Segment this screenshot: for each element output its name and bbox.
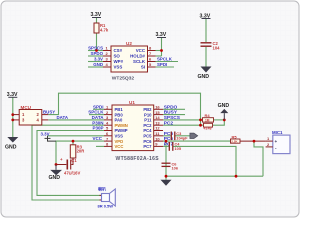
svg-text:喇叭: 喇叭	[98, 186, 106, 192]
svg-text:VCC: VCC	[93, 136, 103, 141]
svg-text:VPD: VPD	[115, 139, 124, 144]
svg-text:U1: U1	[129, 100, 135, 105]
svg-text:SCLK: SCLK	[133, 59, 146, 64]
svg-text:P30P: P30P	[92, 126, 103, 131]
svg-text:SPDO: SPDO	[91, 51, 104, 56]
svg-text:SI: SI	[141, 65, 145, 70]
svg-text:15: 15	[155, 110, 160, 115]
svg-text:GND: GND	[198, 74, 210, 80]
svg-text:PB2: PB2	[143, 107, 152, 112]
svg-text:DATA: DATA	[92, 115, 105, 120]
svg-text:3.3V: 3.3V	[156, 32, 167, 38]
svg-text:2.2K: 2.2K	[231, 140, 238, 144]
svg-text:3.3V: 3.3V	[200, 14, 211, 20]
svg-text:3.3V: 3.3V	[7, 92, 18, 98]
svg-text:BUSY: BUSY	[164, 110, 178, 116]
svg-text:VCC: VCC	[136, 48, 146, 53]
svg-text:P30N: P30N	[92, 120, 103, 125]
svg-text:SPDI: SPDI	[93, 104, 104, 109]
svg-text:MIC1: MIC1	[272, 130, 283, 135]
svg-text:P10: P10	[144, 112, 152, 117]
svg-text:PC2: PC2	[164, 120, 174, 126]
svg-text:PWMN: PWMN	[115, 123, 128, 128]
svg-text:P11: P11	[144, 118, 152, 123]
svg-text:WT588F02A-16S: WT588F02A-16S	[116, 156, 160, 162]
svg-text:SPDI: SPDI	[157, 62, 167, 67]
svg-text:16: 16	[155, 105, 160, 110]
svg-text:R5: R5	[232, 134, 238, 139]
svg-text:DATA: DATA	[57, 115, 69, 120]
svg-text:13: 13	[155, 120, 160, 125]
svg-text:3.3V: 3.3V	[94, 57, 103, 62]
svg-text:WT25Q32: WT25Q32	[112, 75, 135, 81]
svg-text:R4: R4	[205, 113, 211, 118]
svg-text:U2: U2	[126, 41, 132, 46]
svg-text:PC7: PC7	[164, 142, 174, 148]
svg-text:4.7k: 4.7k	[100, 27, 109, 32]
svg-text:4148: 4148	[204, 127, 212, 131]
svg-text:PC4: PC4	[143, 128, 152, 133]
svg-text:+: +	[275, 139, 278, 144]
svg-text:12: 12	[155, 126, 160, 131]
svg-text:PC5: PC5	[143, 134, 152, 139]
svg-text:PB0: PB0	[115, 112, 124, 117]
svg-text:GND: GND	[5, 144, 17, 150]
svg-text:8R 0.5W: 8R 0.5W	[98, 204, 114, 209]
svg-text:14: 14	[155, 115, 160, 120]
svg-text:SO: SO	[114, 54, 121, 59]
svg-text:BUSY: BUSY	[43, 110, 55, 115]
svg-text:HOLD#: HOLD#	[130, 54, 145, 59]
svg-text:VSS: VSS	[114, 65, 123, 70]
svg-text:VCC: VCC	[115, 144, 124, 149]
svg-text:47U/16V: 47U/16V	[64, 170, 81, 175]
svg-text:SPCLK: SPCLK	[157, 57, 173, 62]
svg-text:MCU: MCU	[21, 105, 32, 110]
svg-text:C1: C1	[71, 158, 77, 163]
svg-text:10: 10	[155, 136, 160, 141]
svg-text:GND: GND	[218, 103, 230, 109]
svg-text:SPDO: SPDO	[164, 104, 178, 110]
svg-text:1M: 1M	[205, 119, 210, 123]
svg-text:106: 106	[172, 166, 179, 171]
svg-text:SPSCS: SPSCS	[88, 46, 103, 51]
svg-text:PWMP: PWMP	[115, 128, 128, 133]
svg-text:PC6: PC6	[143, 139, 152, 144]
svg-text:GND: GND	[93, 62, 103, 67]
svg-text:PA0: PA0	[115, 118, 124, 123]
svg-text:104pF: 104pF	[176, 135, 188, 140]
svg-text:SPSCS: SPSCS	[164, 115, 181, 121]
svg-text:CS#: CS#	[114, 48, 123, 53]
svg-text:PC2: PC2	[143, 123, 152, 128]
svg-text:SPCLK: SPCLK	[88, 110, 104, 115]
svg-text:+: +	[60, 157, 63, 162]
svg-text:3.3V: 3.3V	[91, 12, 102, 18]
svg-text:20R: 20R	[77, 149, 85, 154]
svg-text:WP#: WP#	[114, 59, 124, 64]
svg-text:3.3V: 3.3V	[41, 132, 50, 137]
svg-text:VSS: VSS	[115, 134, 124, 139]
svg-text:104: 104	[213, 45, 221, 50]
svg-text:105: 105	[175, 146, 182, 151]
svg-text:PB1: PB1	[115, 107, 124, 112]
svg-text:GND: GND	[49, 175, 61, 181]
svg-text:PC7: PC7	[143, 144, 152, 149]
